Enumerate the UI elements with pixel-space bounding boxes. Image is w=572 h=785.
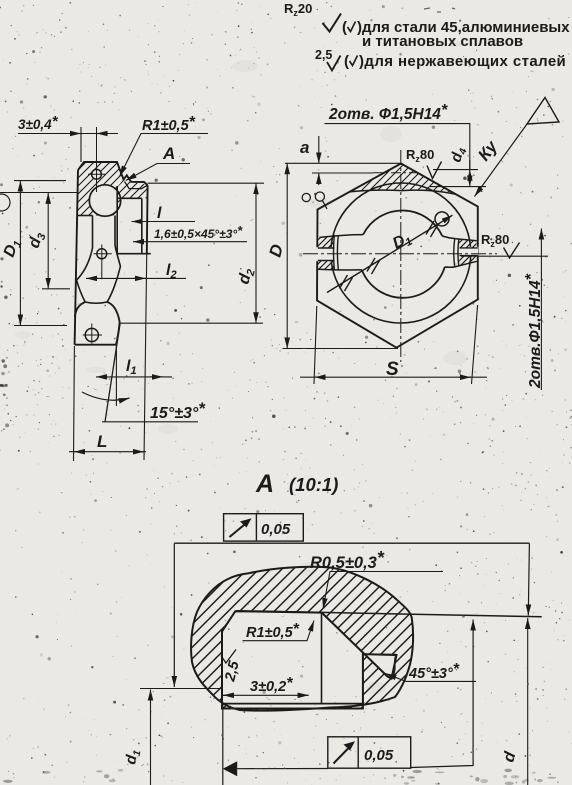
dimension D1 (left)	[1, 181, 67, 326]
svg-text:2,5: 2,5	[315, 48, 332, 62]
dimension D	[266, 163, 398, 348]
hatch upper-left block	[78, 162, 123, 216]
right face extension line	[144, 188, 148, 460]
small hole c4	[85, 328, 98, 341]
Ky taper flag	[474, 98, 559, 197]
svg-text:A: A	[162, 144, 175, 163]
big thread circle	[89, 185, 120, 216]
socket top	[118, 197, 142, 199]
bore top arc	[363, 210, 442, 236]
right band lines	[460, 248, 478, 256]
socket right wall	[141, 198, 143, 253]
dimension l2	[86, 262, 186, 281]
svg-text:0,05: 0,05	[261, 521, 291, 538]
dimension 15°±3°	[102, 399, 206, 422]
svg-text:)для нержавеющих сталей: )для нержавеющих сталей	[359, 53, 566, 70]
groove inner lines	[222, 611, 542, 704]
right slot wall arcs	[454, 239, 459, 267]
frame right vertical with arrow	[528, 543, 529, 615]
leader box to surface	[411, 620, 473, 768]
svg-text:(: (	[342, 19, 347, 36]
dimension 3±0.4	[18, 113, 118, 162]
note Rz20	[284, 1, 312, 18]
chamfer circle	[331, 183, 471, 323]
dimension S	[300, 305, 487, 384]
hexagon outline	[317, 164, 478, 348]
hex top chamfer hatch	[350, 164, 456, 195]
small hole c3	[97, 249, 107, 259]
label 2otv right vertical	[523, 229, 544, 391]
svg-text:2отв.Ф1,5Н14*: 2отв.Ф1,5Н14*	[523, 273, 544, 389]
chamfer bottom wavy line	[350, 190, 456, 194]
dimension 1,6±0,5x45°	[133, 223, 247, 242]
axis hash marks	[340, 221, 439, 291]
chamfer band line	[125, 182, 148, 189]
dome neck line	[85, 302, 107, 303]
right slot top edge	[455, 239, 477, 241]
title A (10:1)	[255, 470, 338, 498]
white band right slot	[460, 247, 479, 257]
centerline horizontal	[303, 253, 497, 255]
note line 2	[315, 48, 566, 71]
two small circles mark	[302, 193, 310, 201]
centerline vertical	[400, 150, 402, 362]
dimension l1	[96, 358, 172, 377]
bore right wall with runout	[107, 216, 120, 303]
dimension d4	[430, 145, 486, 187]
frame top line	[174, 542, 529, 544]
white band left slot	[316, 247, 335, 261]
dimension 45°±3°	[386, 661, 477, 682]
dome right lower edge	[116, 322, 120, 345]
svg-text:l: l	[157, 205, 162, 222]
svg-text:Rz80: Rz80	[481, 232, 509, 249]
right neck curves	[442, 236, 454, 267]
label Rz80 top	[406, 147, 442, 179]
label R0,5±0,3	[310, 548, 443, 609]
dimension 3±0,2	[223, 675, 309, 695]
left slot wall arcs	[334, 235, 339, 270]
svg-text:Rz80: Rz80	[406, 147, 434, 164]
thread runout to dome left	[77, 280, 86, 302]
label R1±0,5	[243, 621, 315, 642]
vertex dash line	[373, 172, 418, 174]
dimension d3	[0, 193, 77, 289]
left band lines	[318, 248, 335, 261]
right slot hatch lower	[459, 256, 476, 267]
datum leader to box	[237, 768, 328, 770]
dome right shoulder	[107, 302, 120, 322]
right slot hatch upper	[459, 239, 476, 248]
label R1±0.5	[120, 114, 209, 177]
frame left vertical with arrow	[173, 543, 175, 687]
hole axis diagonal	[327, 215, 453, 292]
svg-text:L: L	[97, 432, 107, 451]
svg-text:и титановых сплавов: и титановых сплавов	[362, 33, 523, 50]
block inner vertical	[116, 186, 118, 254]
left slot hatch upper	[318, 235, 335, 248]
bore left wall with runout	[77, 216, 93, 281]
svg-text:a: a	[300, 138, 309, 157]
dimension l	[132, 205, 196, 222]
dimension d	[500, 618, 527, 785]
datum triangle	[223, 761, 237, 776]
dimension d1	[122, 690, 150, 785]
left extension line bottom	[73, 346, 76, 461]
dimension L	[69, 432, 146, 452]
surface line extended	[236, 611, 542, 617]
dimension d2	[120, 183, 264, 323]
left slot bottom edge	[318, 268, 362, 271]
left edge	[75, 170, 78, 345]
part bottom edge	[75, 344, 116, 346]
hatch bottom line	[78, 215, 93, 217]
svg-text:(: (	[344, 53, 349, 70]
hole circle on axis	[435, 212, 449, 226]
right edge of right block	[146, 185, 149, 254]
label A (callout)	[126, 144, 190, 181]
svg-text:(10:1): (10:1)	[289, 474, 338, 495]
right slot bottom edge	[455, 261, 477, 267]
label Rz80 right	[461, 232, 548, 258]
tolerance box top	[224, 514, 304, 541]
part outline top	[78, 162, 148, 185]
dome left shoulder	[75, 302, 85, 317]
hatch right block band	[118, 180, 148, 199]
bore bottom arc	[362, 267, 445, 298]
left slot top edge	[320, 235, 364, 238]
roughness mark big check	[323, 14, 342, 32]
small hole c1	[92, 169, 102, 179]
blob hatched body	[191, 567, 413, 711]
svg-text:A: A	[255, 470, 274, 498]
taper line 15deg	[105, 324, 120, 422]
extension line left (d1)	[140, 688, 223, 690]
right block bottom edge	[117, 253, 151, 255]
svg-text:2отв. Ф1,5Н14*: 2отв. Ф1,5Н14*	[328, 102, 448, 123]
hole c1 centerline	[96, 127, 98, 192]
svg-text:Rz20: Rz20	[284, 1, 312, 18]
circled note 1 at margin	[0, 194, 10, 211]
vertical angle reference	[115, 345, 117, 406]
dimension a	[285, 136, 401, 185]
left slot hatch lower	[318, 261, 335, 270]
note line 1	[342, 19, 570, 50]
tolerance box bottom	[328, 737, 411, 768]
label 2otv top	[325, 102, 470, 187]
groove left wall extension down	[222, 704, 224, 785]
roughness 2,5 mark	[221, 650, 243, 684]
angle arc with arrow	[82, 392, 130, 400]
